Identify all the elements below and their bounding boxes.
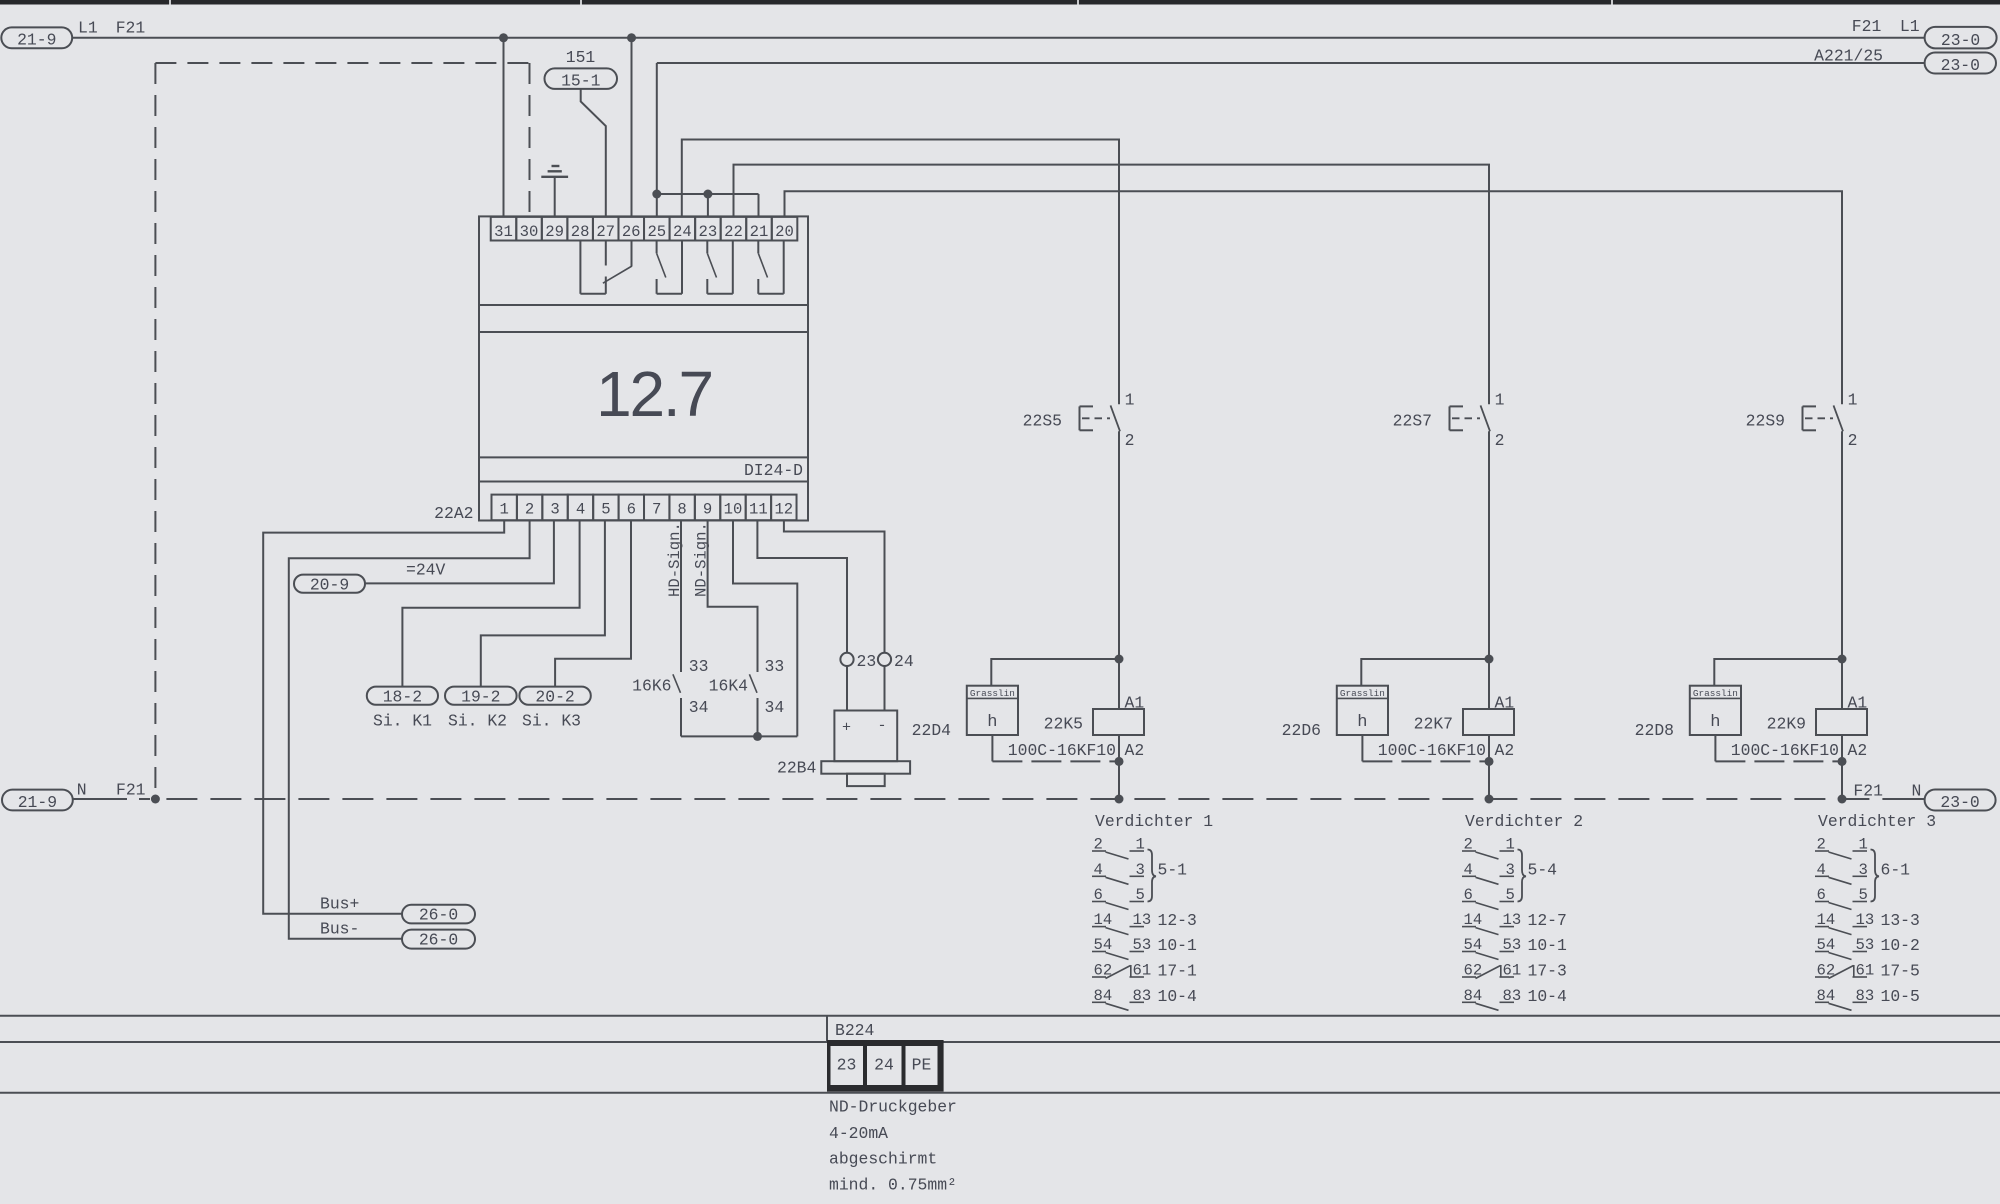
terminal 29 of 22A2 [542,217,568,241]
wire separator B224 [826,1016,828,1042]
svg-text:Grasslin: Grasslin [1693,688,1738,699]
wire N rail dash stub [139,798,150,800]
contact 16K4 [749,674,757,736]
svg-text:1: 1 [500,501,509,519]
svg-text:A1: A1 [1125,694,1145,713]
wire terminal 23 riser [707,194,709,216]
contact mirror of 22K9 [1815,836,1879,1011]
svg-text:18-2: 18-2 [383,687,422,706]
terminal 27 of 22A2 [593,217,619,241]
svg-text:22K5: 22K5 [1044,714,1083,733]
node junction A2 of 22K7 [1485,757,1494,766]
svg-text:N: N [77,781,87,800]
svg-text:1: 1 [1125,391,1135,410]
svg-text:12.7: 12.7 [596,358,712,430]
svg-text:3: 3 [550,501,559,519]
wire N rail solid left [73,798,127,800]
switch 22S5 [1080,405,1121,431]
svg-text:15-1: 15-1 [561,71,601,90]
svg-text:16K4: 16K4 [709,677,748,696]
node oval 15-1 [545,68,618,89]
wire 22K7 A2 to N [1488,735,1490,799]
terminal 26 of 22A2 [618,217,644,241]
svg-text:mind. 0.75mm²: mind. 0.75mm² [829,1176,957,1195]
terminal 25 of 22A2 [644,217,670,241]
svg-text:+: + [842,720,851,737]
svg-text:Verdichter 3: Verdichter 3 [1818,812,1936,831]
wire terminal 11 to point 23 [757,520,847,653]
svg-text:2: 2 [1848,431,1858,450]
svg-text:10-4: 10-4 [1158,987,1197,1006]
wire terminal 25 riser from A221/25 [656,63,658,216]
svg-text:2: 2 [1125,431,1135,450]
ground symbol at terminal 29 [541,166,568,216]
wire terminal 6 to 20-2 [555,520,631,686]
svg-text:100C-16KF10: 100C-16KF10 [1008,741,1116,760]
wire 22S7 to coil branch [1488,431,1490,659]
svg-text:21-9: 21-9 [17,31,56,50]
svg-text:22D8: 22D8 [1635,721,1674,740]
node junction 22K7 on N rail [1485,795,1494,804]
svg-text:34: 34 [689,698,709,717]
svg-text:F21: F21 [1853,782,1883,801]
svg-text:A2: A2 [1495,741,1515,760]
svg-text:Grasslin: Grasslin [970,688,1015,699]
svg-text:31: 31 [494,223,513,241]
node oval 21-9 bottom left [2,790,73,811]
svg-text:PE: PE [912,1056,932,1075]
node oval 26-0 Bus- [402,930,475,949]
wire 22D6 down [1361,735,1363,761]
node oval 23-0 rail A221/25 right [1925,53,1996,74]
svg-text:20-9: 20-9 [310,575,349,594]
svg-text:21-9: 21-9 [18,793,57,812]
bottom band line 2 [0,1041,2000,1043]
svg-text:26: 26 [622,223,641,241]
node oval 26-0 Bus+ [402,905,475,924]
svg-text:17-5: 17-5 [1881,962,1920,981]
wire 22D4 down [991,735,993,761]
wire 34-bus below 16K6/16K4 [681,735,797,737]
terminal 4 of 22A2 [568,495,593,521]
terminal 30 of 22A2 [516,217,542,241]
svg-text:5-4: 5-4 [1528,861,1558,880]
svg-text:5-1: 5-1 [1158,861,1188,880]
svg-text:22B4: 22B4 [777,759,816,778]
wire rail A221/25 [657,62,1925,64]
wire point 24 to 22B4 [884,666,886,711]
node oval 19-2 [445,687,517,705]
node junction rail/t26 [627,33,636,42]
switch 22S9 [1803,405,1844,431]
svg-text:N: N [1912,782,1922,801]
svg-text:12-7: 12-7 [1528,911,1567,930]
svg-text:26-0: 26-0 [419,931,458,950]
svg-text:26-0: 26-0 [419,906,458,925]
svg-text:22S5: 22S5 [1023,411,1062,430]
svg-text:F21: F21 [116,18,146,37]
terminal 10 of 22A2 [720,495,745,521]
wire point 23 to 22B4 [846,666,848,711]
module internal line 3 [479,456,808,458]
svg-text:100C-16KF10: 100C-16KF10 [1731,741,1839,760]
internal NO contact terminals 23/22 [707,241,733,294]
node junction N/dashed vertical [151,795,160,804]
node oval 20-2 [519,687,590,705]
label contact refs of 22K7 [1528,861,1568,1006]
wire branch to timer 22D8 [1714,659,1842,686]
svg-text:-: - [877,718,886,735]
svg-text:20: 20 [775,223,794,241]
svg-text:10: 10 [724,501,743,519]
terminal 2 of 22A2 [517,495,542,521]
svg-text:30: 30 [520,223,539,241]
wire terminal 12 to point 24 [784,520,885,653]
module internal line 2 [479,331,808,333]
timer 22D4 (Grasslin) [967,686,1018,735]
wire 22S5 to coil branch [1118,431,1120,659]
module internal line 4 [479,481,808,483]
bottom band line 3 [0,1092,2000,1094]
node oval 23-0 rail L1 right [1925,27,1997,49]
svg-text:Si. K2: Si. K2 [448,712,507,731]
svg-text:23-0: 23-0 [1940,793,1979,812]
svg-text:9: 9 [703,501,712,519]
internal changeover contact terminals 28/27/26 [580,241,632,294]
svg-text:2: 2 [525,501,534,519]
node oval 23-0 bottom right [1925,790,1996,811]
svg-text:10-1: 10-1 [1158,936,1198,955]
svg-text:22K9: 22K9 [1767,714,1806,733]
module 22A2 body [479,216,808,520]
svg-text:A2: A2 [1848,741,1868,760]
svg-text:L1: L1 [1900,17,1920,36]
svg-text:24: 24 [673,223,692,241]
wire rail to terminal 31 [503,38,505,217]
wire rail to terminal 26 [631,38,633,217]
svg-text:10-1: 10-1 [1528,936,1568,955]
module internal line 1 [479,304,808,306]
wire terminal 20 to 22S9 [785,191,1843,404]
svg-text:Verdichter 1: Verdichter 1 [1095,812,1213,831]
node junction t25/common [652,190,661,199]
node junction above 22K9 [1838,655,1847,664]
wire terminal 22 to 22S7 [734,165,1490,405]
terminal 3 of 22A2 [542,495,567,521]
svg-text:10-4: 10-4 [1528,987,1567,1006]
wire terminal 10 to 34-bus [733,520,797,736]
wire terminal 8 to 16K6 contact [680,520,682,672]
svg-text:17-3: 17-3 [1528,962,1567,981]
node oval 18-2 [367,687,438,705]
svg-text:A1: A1 [1495,694,1515,713]
svg-text:22K7: 22K7 [1414,714,1453,733]
svg-text:Bus+: Bus+ [320,895,359,914]
svg-text:27: 27 [596,223,615,241]
wire N rail dashed [166,798,1884,800]
svg-text:abgeschirmt: abgeschirmt [829,1150,937,1169]
svg-text:24: 24 [894,652,914,671]
svg-text:5: 5 [601,501,610,519]
svg-text:F21: F21 [1852,17,1882,36]
wire terminal 9 to 16K4 contact [708,520,758,672]
node junction A2 of 22K5 [1115,757,1124,766]
svg-text:4-20mA: 4-20mA [829,1124,888,1143]
transducer 22B4 [821,711,910,787]
terminal 1 of 22A2 [491,495,516,521]
wire 22D6 to A2 (dashed) [1362,760,1489,762]
svg-text:22D4: 22D4 [912,721,951,740]
timer 22D8 (Grasslin) [1690,686,1741,735]
wire terminal 21 riser [758,194,760,216]
svg-text:17-1: 17-1 [1158,962,1198,981]
bottom band line 1 [0,1015,2000,1017]
pin 23 of 22B4 [840,653,853,666]
svg-text:7: 7 [652,501,661,519]
internal NO contact terminals 25/24 [657,241,682,294]
svg-text:L1: L1 [78,18,98,37]
svg-text:23: 23 [857,652,877,671]
svg-text:23: 23 [699,223,718,241]
svg-text:2: 2 [1495,431,1505,450]
top frame bar [0,0,2000,5]
svg-text:20-2: 20-2 [535,687,574,706]
svg-text:6: 6 [627,501,636,519]
contact mirror of 22K5 [1092,836,1156,1011]
pin 24 of 22B4 [878,653,891,666]
terminal 12 of 22A2 [771,495,796,521]
svg-text:22S9: 22S9 [1746,411,1785,430]
wire into coil 22K9 [1841,659,1843,709]
svg-text:22D6: 22D6 [1282,721,1321,740]
svg-text:25: 25 [647,223,666,241]
svg-text:h: h [1357,713,1367,732]
node junction A2 of 22K9 [1838,757,1847,766]
node L1/F21 source oval 21-9 top left [1,27,72,48]
terminal 7 of 22A2 [644,495,669,521]
svg-text:DI24-D: DI24-D [744,461,803,480]
wire into coil 22K5 [1118,659,1120,709]
contact mirror of 22K7 [1462,836,1526,1011]
svg-text:6-1: 6-1 [1881,861,1911,880]
terminal 6 of 22A2 [619,495,644,521]
node oval 20-9 [294,575,365,593]
wire N rail solid right [1884,798,1925,800]
svg-text:29: 29 [545,223,564,241]
svg-text:34: 34 [765,698,785,717]
wire branch to timer 22D6 [1361,659,1489,686]
node junction 22K9 on N rail [1838,795,1847,804]
svg-text:24: 24 [874,1056,894,1075]
node junction rail/t31 [499,33,508,42]
terminal 23 of 22A2 [695,217,721,241]
terminal 11 of 22A2 [746,495,771,521]
coil 22K9 [1816,709,1867,735]
svg-text:23-0: 23-0 [1941,56,1980,75]
svg-text:F21: F21 [116,781,146,800]
svg-text:13-3: 13-3 [1881,911,1920,930]
wire terminal 1 to Bus+ [263,520,504,914]
node junction t23/common [703,190,712,199]
wire terminal 24 to 22S5 [682,140,1119,405]
svg-text:22A2: 22A2 [434,504,473,523]
svg-text:33: 33 [689,657,709,676]
timer 22D6 (Grasslin) [1337,686,1388,735]
node junction above 22K5 [1115,655,1124,664]
wire 22D4 to A2 (dashed) [992,760,1119,762]
svg-text:10-5: 10-5 [1881,987,1920,1006]
contact 16K6 [673,674,681,736]
svg-text:33: 33 [765,657,785,676]
wire 22S9 to coil branch [1841,431,1843,659]
svg-text:22S7: 22S7 [1393,411,1432,430]
svg-text:16K6: 16K6 [632,677,671,696]
terminal 9 of 22A2 [695,495,720,521]
terminal 28 of 22A2 [567,217,593,241]
wire 22D8 to A2 (dashed) [1715,760,1842,762]
svg-text:Verdichter 2: Verdichter 2 [1465,812,1583,831]
svg-text:11: 11 [749,501,768,519]
node junction above 22K7 [1485,655,1494,664]
svg-text:151: 151 [566,48,596,67]
internal NO contact terminals 21/20 [758,241,783,294]
svg-text:23-0: 23-0 [1941,31,1980,50]
switch 22S7 [1450,405,1491,431]
svg-text:21: 21 [750,223,769,241]
svg-text:28: 28 [571,223,590,241]
wire dashed horizontal top [155,62,529,64]
wire terminal 5 to 19-2 [481,520,605,686]
svg-text:Si. K3: Si. K3 [522,712,581,731]
svg-text:1: 1 [1848,391,1858,410]
node junction 16K4/34-bus [753,732,762,741]
node junction 22K5 on N rail [1115,795,1124,804]
coil 22K5 [1093,709,1144,735]
svg-text:1: 1 [1495,391,1505,410]
wire branch to timer 22D4 [991,659,1119,686]
terminal 5 of 22A2 [593,495,618,521]
label contact refs of 22K9 [1881,861,1920,1006]
coil 22K7 [1463,709,1514,735]
svg-text:Grasslin: Grasslin [1340,688,1385,699]
wire 22K9 A2 to N [1841,735,1843,799]
svg-text:h: h [1710,713,1720,732]
svg-text:4: 4 [576,501,585,519]
terminal 31 of 22A2 [491,217,517,241]
svg-text:19-2: 19-2 [461,687,500,706]
svg-text:Si. K1: Si. K1 [373,712,432,731]
terminal 8 of 22A2 [669,495,694,521]
svg-text:Bus-: Bus- [320,920,359,939]
wire into coil 22K7 [1488,659,1490,709]
svg-text:100C-16KF10: 100C-16KF10 [1378,741,1486,760]
wire rail L1 F21 [72,37,1924,39]
svg-text:10-2: 10-2 [1881,936,1920,955]
svg-text:23: 23 [837,1056,857,1075]
svg-text:=24V: =24V [406,560,446,579]
wire dashed vertical left [154,63,156,799]
svg-text:A2: A2 [1125,741,1145,760]
terminal 21 of 22A2 [746,217,772,241]
terminal 20 of 22A2 [772,217,798,241]
wire 22D8 down [1714,735,1716,761]
svg-text:12-3: 12-3 [1158,911,1197,930]
wire terminal 2 to Bus- [289,520,530,939]
terminal 24 of 22A2 [670,217,696,241]
wire common t25-t23-t21 [657,193,759,195]
svg-text:ND-Druckgeber: ND-Druckgeber [829,1098,957,1117]
svg-text:A1: A1 [1848,694,1868,713]
terminal 22 of 22A2 [721,217,747,241]
wire terminal 3 to 20-9 [365,520,554,583]
svg-text:12: 12 [774,501,793,519]
wire dashed drop to terminal 30 [529,63,531,216]
label contact refs of 22K5 [1158,861,1198,1006]
svg-text:B224: B224 [835,1021,874,1040]
wire 22K5 A2 to N [1118,735,1120,799]
terminal block B224 [827,1040,944,1092]
svg-text:22: 22 [724,223,743,241]
wire terminal 4 to 18-2 [402,520,579,686]
svg-text:h: h [987,713,997,732]
svg-text:8: 8 [677,501,686,519]
wire 15-1 to terminal 27 [581,89,606,216]
